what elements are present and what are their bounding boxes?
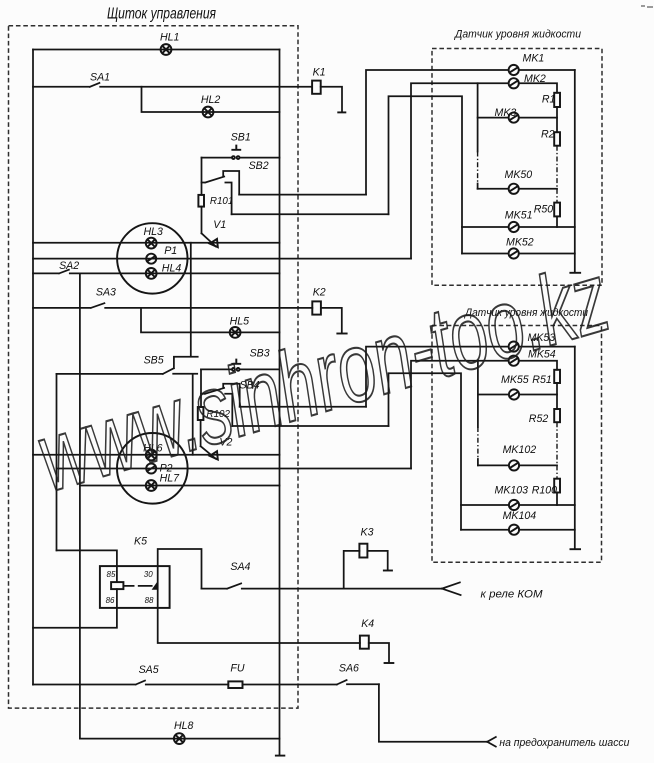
wire: MK50 to R50	[519, 188, 557, 190]
lamp HL2	[203, 107, 214, 118]
wire: HL6 row	[33, 454, 280, 456]
svg-text:на предохранитель шасси: на предохранитель шасси	[499, 737, 630, 749]
continuation (dash-dot, left)	[477, 427, 479, 459]
continuation (dash-dot, left)	[477, 152, 479, 184]
connector arrow: на предохранитель шасси	[487, 737, 496, 747]
wire: K5 pin88 to K4	[158, 608, 360, 643]
svg-text:P1: P1	[164, 245, 177, 257]
diode V1	[202, 233, 216, 246]
resistor R2	[554, 132, 560, 146]
lamp HL5	[230, 327, 241, 338]
continuation (dash-dot, right)	[556, 422, 558, 479]
meter P1	[146, 254, 156, 264]
wire: top row	[33, 49, 280, 51]
lamp HL3	[146, 238, 157, 249]
switch SA4	[202, 583, 442, 588]
wire: left supply rail	[32, 50, 34, 685]
lamp HL8	[174, 733, 185, 744]
pushbutton SB3	[201, 368, 280, 370]
K5 contact	[152, 581, 158, 590]
svg-text:R101: R101	[210, 196, 233, 207]
wire: sensor 1 right rail	[574, 70, 576, 272]
wire: K5 pin30/pin88 through contact	[157, 566, 159, 608]
meter P2	[146, 464, 156, 474]
reed contact MK53	[509, 342, 519, 352]
reed contact MK104	[509, 525, 519, 535]
wire: MK102 to R100	[519, 464, 557, 466]
svg-text:K4: K4	[361, 618, 374, 630]
continuation (dash-dot, right)	[556, 146, 558, 203]
wire: SA3 row to HL5 branch	[141, 308, 280, 333]
button contact SB2	[202, 171, 240, 214]
svg-text:R2: R2	[541, 129, 555, 141]
svg-text:HL4: HL4	[162, 262, 182, 274]
wire: MK103 to right rail	[519, 504, 575, 506]
wire: SA6 down to chassis fuse lead	[379, 684, 487, 742]
wire: MK104 row	[461, 529, 509, 531]
wire: SA1 row to HL2 branch	[142, 87, 280, 112]
wire: sensor 2 right rail	[574, 347, 576, 549]
fuse FU	[228, 681, 242, 688]
wire: SB5 row down to P2 row and K5	[56, 374, 58, 551]
resistor R52	[554, 409, 560, 422]
wire: FU row to SA6	[243, 684, 337, 686]
wire: net MK54 (from P2 row)	[411, 361, 508, 469]
wire: R50 down to MK51 row	[556, 216, 558, 227]
svg-text:FU: FU	[230, 663, 244, 675]
wire: K3 hookup	[344, 551, 388, 589]
wire: MK3 row	[478, 117, 509, 119]
wire: K1 to ground	[321, 87, 342, 112]
ground (bottom of right rail)	[275, 755, 285, 757]
lamp HL6	[146, 450, 157, 461]
connector arrow: к реле КОМ	[442, 582, 461, 595]
svg-text:V1: V1	[213, 219, 226, 231]
svg-text:88: 88	[145, 596, 154, 605]
wire: SB2 output to MK1 net	[239, 194, 366, 196]
relay K5 body	[100, 566, 170, 608]
watermark www.sinhron-too.kz	[25, 241, 620, 512]
resistor R51	[554, 370, 560, 383]
svg-text:MK104: MK104	[503, 510, 537, 522]
wire: MK50 row	[478, 188, 509, 190]
wire: MK1 to right rail	[519, 69, 575, 71]
diode V2	[201, 446, 216, 459]
svg-text:86: 86	[106, 596, 115, 605]
wire: R1 to R2	[556, 107, 558, 132]
wire: net MK1 (from SB2 output)	[366, 70, 508, 195]
resistor R102	[198, 407, 204, 420]
svg-text:K2: K2	[313, 286, 326, 298]
svg-text:R1: R1	[542, 93, 556, 105]
wire: MK54 to R51	[519, 361, 557, 370]
svg-text:K1: K1	[313, 67, 326, 79]
svg-text:SB5: SB5	[144, 354, 164, 366]
button contact SB4	[201, 384, 240, 426]
switch SA5	[33, 681, 228, 685]
ground (K2)	[336, 333, 347, 335]
svg-text:MK51: MK51	[505, 210, 533, 222]
svg-text:K5: K5	[134, 536, 147, 548]
K5 coil	[111, 582, 123, 589]
resistor R50	[554, 203, 560, 217]
svg-text:HL1: HL1	[160, 31, 179, 43]
pushbutton SB1	[202, 157, 280, 159]
reed contact MK103	[509, 500, 519, 510]
wire: MK53 to right rail	[519, 346, 575, 348]
lamp HL4	[146, 268, 157, 279]
reed contact MK102	[509, 460, 519, 470]
svg-text:R52: R52	[529, 413, 549, 425]
lamp HL7	[146, 480, 157, 491]
wire: MK55 to R51/R52 junction	[519, 394, 557, 396]
wire: MK102 row	[478, 464, 509, 466]
svg-text:к реле КОМ: к реле КОМ	[481, 588, 544, 600]
svg-text:SA3: SA3	[96, 286, 116, 298]
wire: MK3 to R1/R2 junction	[519, 117, 557, 119]
svg-text:SB1: SB1	[231, 131, 251, 143]
resistor R101	[198, 195, 204, 207]
ground (K1)	[337, 111, 346, 113]
wire: net MK53 (from SB4 output)	[366, 347, 508, 407]
wire: HL7 row	[80, 485, 280, 487]
svg-text:K3: K3	[361, 527, 374, 539]
wire: net MK51/MK52 feeder (from SB2 contact)	[389, 96, 463, 253]
ground (sensor 1)	[569, 272, 581, 274]
reed contact MK2	[509, 78, 519, 88]
relay coil K3	[359, 544, 367, 558]
svg-text:SA1: SA1	[90, 71, 110, 83]
instrument cluster circle (HL3/P1/HL4)	[117, 223, 187, 293]
resistor R1	[554, 93, 560, 107]
svg-text:HL5: HL5	[230, 316, 250, 328]
wire: net MK103/MK104 feeder (from SB4 contact)	[389, 373, 462, 530]
wire: P1 row (extends to sensor 1 MK2)	[33, 258, 411, 260]
svg-text:MK50: MK50	[505, 169, 533, 181]
wire: HL8 row	[80, 738, 280, 740]
wire: MK51 row	[462, 226, 508, 228]
svg-text:Щиток управления: Щиток управления	[107, 6, 217, 23]
reed contact MK54	[509, 356, 519, 366]
svg-text:SA5: SA5	[139, 664, 159, 676]
wire: R101 to V1	[201, 207, 203, 234]
svg-text:MK102: MK102	[503, 444, 537, 456]
svg-text:HL8: HL8	[174, 720, 194, 732]
wire: K4 to ground	[369, 643, 389, 662]
wire: K5 pin86 to left rail	[33, 589, 117, 628]
svg-text:SA2: SA2	[59, 260, 79, 272]
sensor 2 enclosure (dashed)	[432, 326, 602, 563]
wire: MK2 to R1	[519, 83, 557, 93]
wire: SB1 down to SB2 and R101	[201, 158, 203, 195]
switch SA1	[33, 83, 312, 87]
wire: SB2 contact output	[232, 213, 389, 215]
svg-text:HL2: HL2	[201, 94, 221, 106]
scan smudge (top right)	[641, 6, 653, 7]
svg-text:MK103: MK103	[495, 484, 529, 496]
instrument cluster circle (HL6/P2/HL7)	[117, 433, 188, 504]
wire: SB4 output to MK53 net	[240, 406, 366, 408]
relay coil K1	[312, 81, 321, 94]
wire: MK51 to right rail	[519, 226, 575, 228]
switch SA6	[337, 680, 379, 684]
svg-text:Датчик уровня жидкости: Датчик уровня жидкости	[453, 29, 581, 41]
svg-text:R50: R50	[534, 203, 554, 215]
wire: net MK2 (from P1 row)	[411, 83, 508, 258]
wire: MK52 row	[462, 253, 508, 255]
svg-text:30: 30	[144, 570, 153, 579]
svg-text:MK1: MK1	[523, 52, 545, 64]
reed contact MK50	[509, 184, 519, 194]
svg-text:MK3: MK3	[495, 107, 517, 119]
ground (K4)	[384, 662, 395, 664]
wire: MK103 row	[461, 504, 509, 506]
wire: SA2 row down branch	[79, 273, 81, 738]
svg-text:MK52: MK52	[506, 236, 534, 248]
reed contact MK3	[509, 113, 519, 123]
svg-text:R100: R100	[532, 484, 557, 496]
wire: sensor 1 inner-left branch	[477, 83, 479, 189]
relay coil K4	[360, 636, 369, 649]
sensor 1 enclosure (dashed)	[432, 49, 602, 286]
resistor R100	[554, 479, 560, 493]
wire: K5 pin30 to SA4	[158, 549, 202, 589]
wire: P2 row (extends to sensor 2 MK54)	[57, 468, 412, 470]
wire: R100 down to MK103 row	[556, 493, 558, 506]
switch SA2	[33, 270, 280, 274]
switch SA3	[33, 303, 312, 308]
reed contact MK1	[509, 65, 519, 75]
svg-text:SB2: SB2	[249, 160, 269, 172]
ground (K3)	[383, 570, 393, 572]
svg-text:HL3: HL3	[144, 226, 164, 238]
wire: right panel rail	[279, 50, 281, 756]
K5 actuation link (dashed)	[123, 585, 151, 587]
wire: MK104 to right rail	[519, 529, 575, 531]
svg-text:SA6: SA6	[339, 663, 359, 675]
wire: SB4 contact output	[232, 425, 388, 427]
wire: K2 to ground	[321, 308, 342, 333]
reed contact MK52	[509, 248, 519, 258]
reed contact MK51	[509, 222, 519, 232]
wire: SB3 down to SB4 and R102	[200, 369, 202, 407]
ground (sensor 2)	[570, 548, 582, 550]
wire: sensor 2 inner-left branch	[477, 361, 479, 466]
button contact SB5	[57, 357, 198, 455]
wire: HL3 row	[33, 242, 280, 244]
svg-text:R51: R51	[532, 374, 551, 386]
svg-text:SA4: SA4	[230, 561, 250, 573]
wire: K5 pin85 feed from P2 net	[57, 550, 117, 582]
wire: R102 to V2	[200, 420, 202, 446]
wire: MK52 to right rail	[519, 253, 575, 255]
relay coil K2	[312, 301, 321, 314]
svg-text:85: 85	[107, 570, 116, 579]
control panel enclosure (dashed)	[9, 26, 299, 708]
reed contact MK55	[509, 389, 519, 399]
wire: R51 to R52	[556, 383, 558, 409]
wire: HL3 row down to SB5	[190, 243, 192, 357]
lamp HL1	[161, 44, 172, 55]
wire: MK55 row	[478, 394, 509, 396]
